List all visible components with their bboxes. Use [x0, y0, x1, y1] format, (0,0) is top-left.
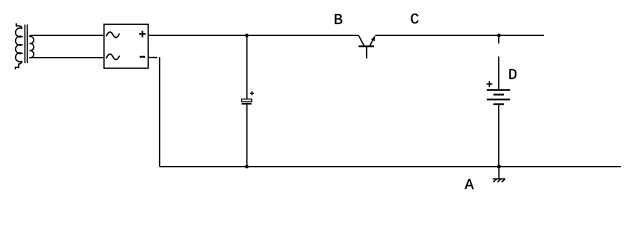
junction node at capacitor bottom [245, 165, 249, 169]
transistor Q1 collector diagonal [359, 35, 364, 45]
battery D plate 3 long [487, 99, 510, 101]
battery D plate 1 long [487, 89, 510, 91]
transistor Q1 base lead [366, 47, 368, 58]
BR1 minus terminal label [140, 56, 146, 58]
battery D plate 2 short [493, 94, 504, 96]
battery D plate 4 short [493, 103, 504, 105]
transistor Q1 emitter arrowhead [371, 36, 375, 42]
svg-text:B: B [334, 12, 343, 29]
transformer T1 primary winding [15, 23, 21, 69]
capacitor C1 bottom lead [246, 105, 248, 167]
svg-text:C: C [410, 11, 419, 28]
BR1 AC symbol bottom [106, 54, 119, 60]
wire node C to end [375, 34, 544, 36]
junction node at ground [497, 165, 501, 169]
ground stub [498, 167, 500, 179]
battery D polarity plus [486, 81, 492, 87]
transistor Q1 base bar [359, 45, 374, 47]
wire BR1 + output to node B [148, 34, 358, 36]
bridge rectifier BR1 box [104, 24, 148, 68]
battery D top lead upper segment [498, 35, 500, 43]
battery D top lead lower segment [498, 57, 500, 90]
transformer T1 core [25, 25, 27, 64]
BR1 AC symbol top [106, 32, 119, 38]
capacitor C1 positive plate [242, 99, 252, 102]
junction node at capacitor top [245, 34, 249, 38]
transistor Q1 emitter diagonal [370, 37, 375, 46]
ground hatch ticks [493, 179, 505, 182]
junction node at battery top [497, 34, 501, 38]
battery D bottom lead [498, 104, 500, 166]
wire BR1 - output [148, 57, 157, 59]
capacitor C1 polarity plus [250, 91, 254, 95]
capacitor C1 top lead [246, 35, 248, 99]
capacitor C1 negative plate [242, 103, 252, 105]
wire negative rail vertical [159, 57, 161, 166]
svg-text:D: D [508, 67, 517, 84]
transformer T1 secondary winding [30, 35, 104, 57]
BR1 plus terminal label [139, 31, 146, 38]
svg-text:A: A [465, 177, 474, 194]
wire bottom rail [160, 166, 621, 168]
ground bar [493, 178, 506, 180]
